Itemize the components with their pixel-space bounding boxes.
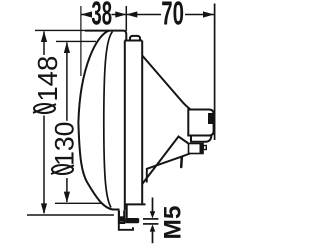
body top edge: [125, 40, 143, 42]
arrowhead 70 left: [126, 11, 137, 17]
wire terminal lug: [180, 158, 183, 168]
connector tab: [203, 146, 206, 150]
bracket foot: [119, 224, 133, 230]
svg-text:70: 70: [161, 0, 184, 32]
extension line between 38 and 70: [125, 6, 127, 31]
dimension line D148 vertical: [43, 32, 45, 214]
lens outer curve: [78, 31, 119, 210]
connector wire: [147, 154, 190, 183]
extension line D130 top: [56, 40, 96, 42]
arrowhead 38 right: [115, 11, 126, 17]
M5 arrow down: [152, 198, 154, 213]
adjusting screw dome: [130, 36, 140, 41]
arrowhead D148 up: [41, 31, 47, 42]
arrowhead 38 left: [81, 11, 92, 17]
arrowhead D148 down: [41, 203, 47, 214]
svg-text:130: 130: [50, 122, 80, 166]
back cap: [188, 110, 213, 136]
M5 tick lower: [143, 223, 158, 225]
M5 tick upper: [143, 218, 158, 220]
cap lower lip: [191, 136, 211, 142]
lamp top edge with front corner: [85, 31, 126, 41]
dimension line 38/70 horizontal: [81, 14, 214, 16]
cap clip notch: [208, 113, 213, 124]
bracket back edge line: [126, 205, 128, 219]
extension line D148 bottom: [27, 214, 114, 216]
M5 arrow up: [152, 231, 154, 243]
lens inner curve: [104, 32, 113, 208]
dimension line D130 vertical: [66, 43, 68, 203]
arrowhead 70 right: [203, 11, 214, 17]
cone lower edge: [142, 137, 188, 185]
label D148 diameter symbol: [34, 104, 55, 113]
extension line D130 bottom: [55, 202, 101, 204]
cone upper edge: [142, 56, 190, 110]
body bottom edge: [125, 203, 146, 205]
svg-text:38: 38: [91, 0, 112, 32]
bracket boss dark fill: [120, 216, 124, 221]
label D130 diameter symbol: [52, 165, 73, 174]
connector right terminal: [200, 144, 204, 154]
arrowhead D130 up: [64, 42, 70, 53]
extension line right of 70: [214, 4, 216, 141]
arrowhead D130 down: [64, 192, 70, 203]
bracket boss U: [119, 211, 124, 223]
extension line left of 38: [80, 6, 82, 76]
svg-text:M5: M5: [160, 205, 187, 239]
body front line: [141, 41, 143, 205]
extension line D148 top: [35, 29, 85, 31]
rim front line: [124, 41, 126, 211]
connector box: [189, 144, 204, 154]
svg-text:148: 148: [32, 56, 63, 102]
M5 stud bolt: [125, 218, 139, 223]
